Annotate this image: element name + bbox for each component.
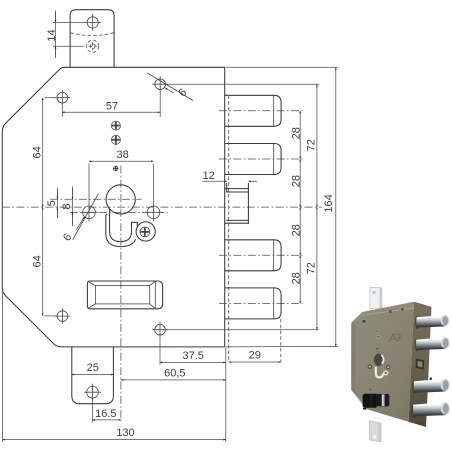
dim 25 [72, 362, 114, 374]
photo logo stamp [390, 334, 402, 342]
photo front top edge highlight [365, 308, 414, 314]
dim 37.5 [160, 336, 226, 365]
photo side screws [368, 364, 373, 369]
photo keyhole [374, 354, 389, 378]
dim 57 [62, 91, 160, 117]
photo body top face [351, 302, 414, 323]
svg-text:64: 64 [31, 146, 43, 158]
svg-text:57: 57 [106, 101, 118, 113]
dim chain 28 x4 [290, 111, 302, 304]
svg-text:28: 28 [290, 127, 302, 139]
keyhole stem [110, 209, 138, 242]
deadbolt 3 centreline [219, 254, 303, 256]
photo rivets top edge [389, 310, 392, 313]
deadbolt 2 [225, 144, 281, 175]
deadbolt 2 centreline [219, 158, 303, 160]
screw hole bottom-right [152, 322, 168, 338]
dim 60,5 [121, 368, 226, 380]
svg-text:64: 64 [31, 255, 43, 267]
keyhole outer contour [106, 214, 136, 246]
lever slot facets [88, 281, 155, 309]
photo bottom strip hole [373, 435, 375, 439]
photo bolt root shadows [411, 316, 419, 418]
small pin hole above keyhole [113, 166, 118, 171]
keyhole horizontal centreline [50, 198, 142, 200]
photo top faceplate strip [370, 287, 382, 308]
svg-text:16.5: 16.5 [95, 408, 116, 420]
dim 14 [46, 11, 84, 58]
photo side pin hole [430, 377, 433, 380]
side holes centreline [70, 211, 168, 213]
mounting hole pair above keyhole [111, 121, 120, 130]
faceplate bottom tab [72, 347, 114, 404]
deadbolt 1 centreline [219, 110, 303, 112]
dim 12 [202, 170, 257, 182]
svg-text:12: 12 [203, 170, 215, 182]
mounting hole 2 [111, 135, 120, 144]
svg-text:37.5: 37.5 [182, 350, 203, 362]
deadbolt 1 [225, 95, 281, 126]
dim 72 upper [166, 84, 319, 330]
lock case outline [2, 67, 224, 347]
photo front face speckle dark [351, 308, 414, 422]
photo thumb knob [363, 394, 377, 408]
horizontal centreline lock axis [2, 206, 322, 208]
svg-text:28: 28 [290, 175, 302, 187]
svg-text:5: 5 [46, 200, 58, 206]
photo top strip hole [373, 290, 376, 293]
dim 130 [3, 292, 226, 442]
side hole left with callout 6 [61, 194, 98, 244]
tab hole [84, 14, 101, 31]
svg-text:6: 6 [61, 232, 74, 244]
dim 64 upper [31, 98, 57, 207]
bottom tab hole [84, 384, 101, 401]
dim 29 [229, 350, 281, 362]
photo lower pin [369, 389, 371, 391]
photo bolt 3 [414, 379, 450, 393]
side hole right [145, 204, 163, 222]
deadbolt 4 centreline [219, 302, 303, 304]
deadbolt 3 [225, 240, 281, 271]
photo body right side face [409, 302, 432, 427]
svg-text:130: 130 [116, 427, 134, 439]
photo front face speckle light [351, 308, 414, 422]
latch bolt [225, 183, 249, 223]
screw hole top-left [55, 90, 71, 106]
svg-text:72: 72 [305, 262, 317, 274]
lever slot inner [96, 286, 150, 304]
svg-text:60,5: 60,5 [164, 368, 185, 380]
photo square follower [416, 359, 425, 370]
svg-text:25: 25 [87, 362, 99, 374]
photo front left shade [351, 320, 369, 410]
hidden bolt nose extension line [280, 319, 282, 362]
dim 64 lower [31, 207, 57, 316]
svg-text:72: 72 [305, 139, 317, 151]
dim 72 lower [305, 207, 317, 330]
photo corner hole [363, 320, 366, 323]
dim 16.5 [93, 399, 121, 423]
dim 38 [89, 149, 154, 204]
keyhole pump circle [136, 222, 155, 241]
tab hidden hole (dashed) [87, 40, 99, 52]
photo bolt 2 [416, 337, 449, 350]
photo bottom faceplate strip [369, 421, 381, 442]
photo screw holes upper [376, 330, 380, 334]
photo bolt 1 [417, 315, 450, 328]
dim 164 [226, 67, 338, 347]
svg-text:28: 28 [290, 272, 302, 284]
deadbolt 4 [225, 288, 281, 319]
screw hole top-right with diameter callout 6 [147, 73, 193, 101]
keyhole pump inner hole [140, 227, 150, 237]
dim 8 [61, 186, 73, 226]
svg-text:38: 38 [116, 149, 128, 161]
photo body front face [351, 308, 414, 422]
faceplate top tab [70, 10, 114, 68]
photo bolt 4 [413, 402, 449, 416]
screw hole bottom-left [55, 308, 71, 324]
photo side face speckle [409, 302, 432, 427]
hidden faceplate line through bolts [228, 95, 230, 362]
svg-text:14: 14 [46, 29, 58, 41]
svg-text:8: 8 [61, 203, 73, 209]
keyhole main circle [106, 185, 135, 214]
dim 5 [46, 188, 58, 219]
svg-text:28: 28 [290, 224, 302, 236]
svg-text:29: 29 [249, 350, 261, 362]
tab bend dashed line [70, 33, 114, 36]
svg-text:164: 164 [323, 194, 335, 212]
keyhole vertical centreline [120, 166, 122, 422]
photo small pin [376, 348, 378, 350]
lever slot outer [87, 281, 162, 309]
